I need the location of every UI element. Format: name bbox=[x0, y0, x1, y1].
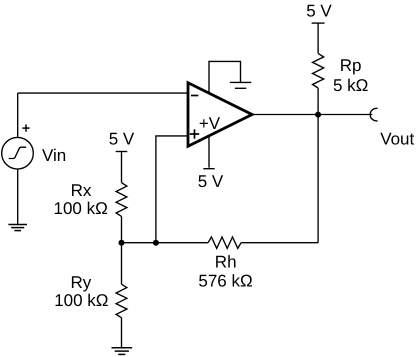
wire: 5V tick down to Rp bbox=[317, 23, 319, 53]
svg-text:Vin: Vin bbox=[42, 146, 66, 165]
ground below Vin bbox=[8, 225, 27, 231]
node C junction dot (output node) bbox=[315, 112, 321, 118]
wire: Rh right lead bbox=[241, 242, 318, 244]
svg-text:5 V: 5 V bbox=[198, 172, 224, 191]
svg-text:5 kΩ: 5 kΩ bbox=[333, 76, 368, 95]
svg-text:100 kΩ: 100 kΩ bbox=[54, 199, 108, 218]
op-amp U1 bbox=[188, 83, 252, 147]
node B junction dot bbox=[153, 240, 159, 246]
resistor Ry bbox=[116, 284, 127, 317]
wire: Vin top vertical bbox=[17, 93, 19, 137]
polarity plus of Vin bbox=[22, 125, 29, 132]
svg-text:Vout: Vout bbox=[380, 130, 414, 149]
wire: Vin bottom vertical bbox=[17, 169, 19, 225]
ground below Ry bbox=[112, 348, 133, 355]
wire: inverting input horizontal from Vin to op-amp bbox=[18, 92, 188, 94]
resistor Rx bbox=[116, 183, 127, 217]
wire: op-amp bottom supply pin bbox=[208, 131, 210, 168]
svg-text:Rp: Rp bbox=[340, 56, 362, 75]
wire: Rx to node A bbox=[121, 216, 123, 242]
power 5V terminal tick (top right) bbox=[312, 22, 325, 24]
wire: riser from node B up to non-inverting input bbox=[156, 136, 188, 243]
svg-text:+V: +V bbox=[199, 114, 221, 133]
resistor Rh bbox=[208, 237, 241, 248]
terminal Vout (open arc) bbox=[370, 108, 377, 121]
wire: Rp down to output node bbox=[317, 88, 319, 115]
voltage source Vin bbox=[2, 137, 34, 169]
wire: op-amp top supply pin bbox=[209, 61, 241, 97]
ground at op-amp top pin bbox=[230, 82, 251, 88]
wire: node A down to Ry bbox=[121, 243, 123, 285]
wire: output node down to Rh bbox=[317, 115, 319, 243]
op-amp inverting input marker bbox=[191, 95, 198, 97]
svg-text:5 V: 5 V bbox=[306, 1, 332, 20]
op-amp non-inverting input marker bbox=[190, 129, 199, 138]
power 5V terminal tick (left divider) bbox=[116, 151, 128, 153]
wire: op-amp output to Vout terminal bbox=[252, 114, 372, 116]
svg-text:Ry: Ry bbox=[71, 273, 92, 292]
wire: 5V tick down to Rx bbox=[121, 152, 123, 183]
svg-text:Rx: Rx bbox=[71, 181, 92, 200]
node A junction dot bbox=[119, 240, 125, 246]
svg-text:576 kΩ: 576 kΩ bbox=[198, 271, 252, 290]
wire: node row from node A to Rh bbox=[122, 242, 209, 244]
svg-text:100 kΩ: 100 kΩ bbox=[54, 291, 108, 310]
power 5V terminal tick (op-amp negative supply) bbox=[203, 168, 214, 170]
svg-text:5 V: 5 V bbox=[109, 130, 135, 149]
wire: Ry down to ground bbox=[121, 318, 123, 348]
svg-text:Rh: Rh bbox=[215, 252, 237, 271]
resistor Rp bbox=[313, 53, 324, 88]
